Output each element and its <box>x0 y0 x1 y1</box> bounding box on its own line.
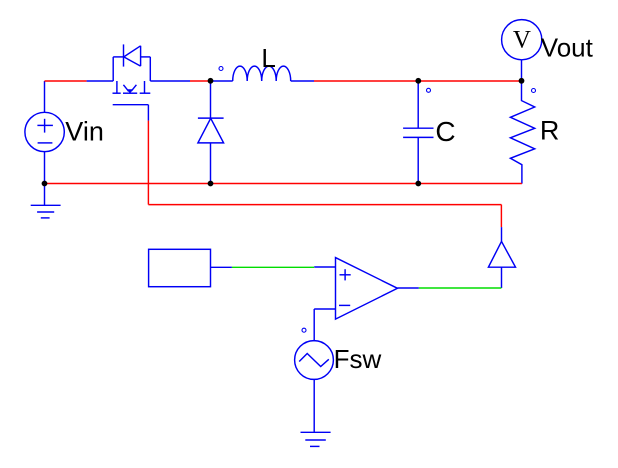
gate drive wire (red) <box>148 121 501 228</box>
diode D1 (freewheeling) <box>198 81 224 184</box>
voltmeter Vout <box>502 20 542 81</box>
svg-text:Vin: Vin <box>65 116 104 146</box>
marker dot (C) <box>427 88 431 92</box>
wire Vin to MOSFET (red) <box>45 80 87 82</box>
svg-text:V: V <box>513 27 531 54</box>
marker dot (R) <box>532 89 536 93</box>
block output stub <box>211 266 232 268</box>
gate driver buffer <box>488 227 515 288</box>
wire comparator minus to Fsw <box>313 309 315 341</box>
triangle source Fsw <box>295 341 334 432</box>
ground (Fsw) <box>301 432 331 446</box>
svg-text:C: C <box>435 116 455 147</box>
junction node cap top <box>415 78 421 84</box>
inductor L <box>211 66 315 81</box>
comparator output wire (green) <box>419 287 502 289</box>
svg-text:Vout: Vout <box>541 33 594 63</box>
capacitor C <box>403 81 433 184</box>
wire block to comparator (green) <box>232 266 314 268</box>
wire MOSFET to node SW (red) <box>190 80 211 82</box>
bottom rail (red) <box>45 183 522 185</box>
marker dot (L) <box>219 67 223 71</box>
junction node Vout <box>519 78 525 84</box>
svg-text:R: R <box>540 116 560 146</box>
junction node (Vin bottom) <box>42 181 48 187</box>
wire SW node to output node (red) <box>314 80 522 82</box>
svg-text:L: L <box>261 43 275 73</box>
ground (Vin) <box>31 184 61 218</box>
MOSFET Q1 with body diode <box>87 44 190 120</box>
comparator U1 <box>314 258 419 320</box>
svg-text:Fsw: Fsw <box>334 344 382 374</box>
junction node cap bottom <box>415 181 421 187</box>
marker dot (Fsw) <box>302 328 306 332</box>
resistor R <box>510 81 534 184</box>
junction node SW top <box>208 78 214 84</box>
duty-cycle constant block <box>149 249 211 286</box>
junction node diode bottom <box>208 181 214 187</box>
voltage source Vin <box>25 81 64 184</box>
